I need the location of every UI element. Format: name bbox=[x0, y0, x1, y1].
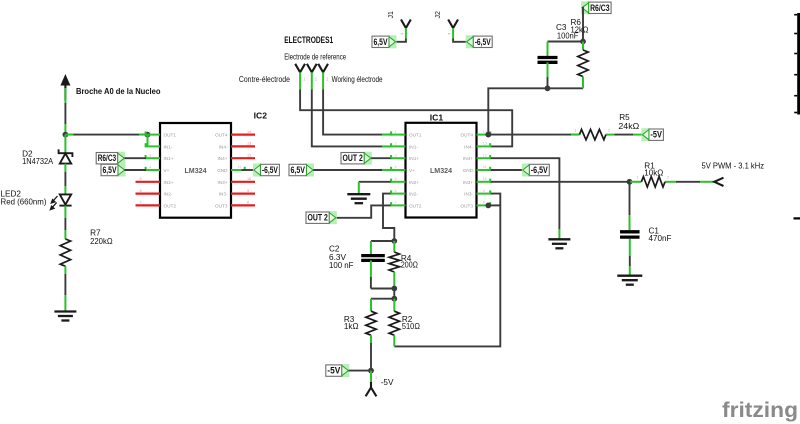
svg-text:Broche A0 de la Nucleo: Broche A0 de la Nucleo bbox=[76, 86, 161, 96]
wire R6/C3 label to IC2 IN1+ bbox=[125, 157, 147, 159]
svg-text:GND: GND bbox=[217, 168, 228, 173]
svg-text:10: 10 bbox=[247, 177, 251, 181]
net label -6,5V at IC1 GND bbox=[522, 164, 550, 177]
op-amp IC1 pin 6 (IN2-) stub bbox=[391, 193, 406, 195]
op-amp IC2 pin 7 (OUT2) stub bbox=[136, 204, 161, 206]
wire IC1 IN4+ to ground bbox=[491, 158, 560, 229]
wire IC1 IN3- down to R2 bottom bbox=[394, 194, 500, 347]
svg-text:IN4+: IN4+ bbox=[463, 156, 473, 161]
pin mark J1 bbox=[401, 33, 404, 35]
net label R6/C3 at IC2 IN1+ bbox=[96, 152, 125, 165]
wire R3 top lead bbox=[370, 299, 372, 312]
svg-text:12: 12 bbox=[483, 153, 487, 157]
net label -6,5V at J2 bbox=[466, 35, 493, 48]
wire R2 top lead bbox=[393, 299, 395, 312]
net label -6,5V at IC2 GND bbox=[253, 164, 280, 177]
resistor R6 12k bbox=[578, 50, 588, 77]
svg-text:OUT 2: OUT 2 bbox=[343, 153, 363, 163]
net label -5V bottom bbox=[326, 364, 350, 377]
wire R6/C3 label to node bbox=[582, 8, 583, 42]
svg-text:V+: V+ bbox=[164, 168, 170, 173]
wire green ends R5 bbox=[571, 134, 580, 136]
svg-text:11: 11 bbox=[483, 165, 487, 169]
svg-text:IN1+: IN1+ bbox=[409, 156, 419, 161]
svg-text:V+: V+ bbox=[409, 168, 415, 173]
svg-text:-5V: -5V bbox=[381, 378, 394, 387]
op-amp IC1 pin 14 (OUT4) stub bbox=[477, 134, 491, 136]
op-amp IC2 pin 3 (IN1+) stub bbox=[145, 157, 160, 159]
op-amp IC1 pin 7 (OUT2) stub bbox=[391, 204, 406, 206]
svg-text:11: 11 bbox=[237, 165, 241, 169]
junction R2/R3 top bbox=[391, 296, 397, 302]
svg-text:-6,5V: -6,5V bbox=[475, 37, 492, 47]
wire J1 lead bbox=[405, 28, 407, 39]
junction C2/R4 top bbox=[391, 238, 397, 244]
svg-text:OUT3: OUT3 bbox=[215, 203, 228, 208]
resistor R3 1k bbox=[366, 311, 376, 335]
wire C1 to ground bbox=[629, 239, 631, 256]
svg-text:IN3-: IN3- bbox=[464, 192, 473, 197]
wire R5 to -5V label bbox=[615, 134, 634, 136]
svg-text:IN3+: IN3+ bbox=[463, 180, 473, 185]
wire working electrode to IC1 OUT1 bbox=[323, 90, 390, 135]
svg-text:Red (660nm): Red (660nm) bbox=[1, 198, 47, 207]
svg-text:14: 14 bbox=[247, 130, 251, 134]
svg-text:IN1-: IN1- bbox=[164, 144, 173, 149]
wire IC2 GND to -6,5V label bbox=[242, 169, 254, 171]
svg-text:10: 10 bbox=[483, 177, 487, 181]
svg-text:OUT2: OUT2 bbox=[409, 203, 422, 208]
svg-text:12kΩ: 12kΩ bbox=[571, 26, 589, 35]
wire green end OUT1 bbox=[382, 134, 391, 136]
wire C3 bottom lead bbox=[547, 62, 549, 77]
svg-text:LM324: LM324 bbox=[430, 167, 452, 175]
svg-text:9: 9 bbox=[247, 189, 249, 193]
svg-text:IN1-: IN1- bbox=[409, 144, 418, 149]
svg-text:6: 6 bbox=[395, 189, 397, 193]
wire LED2 to R7 bbox=[64, 206, 66, 218]
svg-text:6,5V: 6,5V bbox=[103, 165, 118, 175]
svg-text:5: 5 bbox=[140, 177, 142, 181]
op-amp IC2 pin 10 (IN3+) stub bbox=[231, 181, 255, 183]
junction IC1 OUT4 bbox=[485, 132, 491, 138]
svg-text:2: 2 bbox=[667, 176, 669, 180]
svg-text:7: 7 bbox=[140, 201, 142, 205]
junction node A bbox=[63, 132, 69, 138]
op-amp IC2 pin 4 (V+) stub bbox=[145, 169, 160, 171]
op-amp IC2 pin 14 (OUT4) stub bbox=[231, 134, 255, 136]
svg-text:J1: J1 bbox=[388, 11, 395, 19]
svg-text:IN2-: IN2- bbox=[409, 192, 418, 197]
partial component at right edge bbox=[794, 13, 800, 218]
op-amp IC2 pin 2 (IN1-) stub bbox=[145, 145, 160, 147]
wire C2 bottom lead bbox=[370, 260, 372, 277]
svg-text:GND: GND bbox=[463, 168, 474, 173]
wire R4 bottom to R2 top node bbox=[393, 289, 395, 299]
svg-text:OUT1: OUT1 bbox=[409, 133, 422, 138]
svg-text:Contre-électrode: Contre-électrode bbox=[239, 75, 290, 84]
svg-text:13: 13 bbox=[247, 142, 251, 146]
svg-text:1: 1 bbox=[636, 176, 638, 180]
wire reference electrode to IC1 IN1- bbox=[312, 90, 391, 147]
op-amp IC1 pin 4 (V+) stub bbox=[391, 169, 406, 171]
svg-text:510Ω: 510Ω bbox=[402, 322, 420, 331]
wire IC1 OUT3 to feedback bbox=[488, 204, 500, 206]
svg-text:1: 1 bbox=[375, 376, 377, 380]
junction IC1 OUT3 bbox=[485, 203, 491, 209]
svg-text:R6/C3: R6/C3 bbox=[590, 3, 610, 13]
svg-text:8: 8 bbox=[247, 201, 249, 205]
wire node to R3 top bbox=[371, 298, 394, 300]
terminal -5V fork bbox=[366, 382, 377, 396]
svg-text:Electrode de reference: Electrode de reference bbox=[284, 53, 346, 62]
wire R4 bottom lead bbox=[393, 272, 395, 289]
ground GND3 bbox=[548, 239, 570, 248]
wire IC1 GND to -6,5V label bbox=[491, 169, 523, 171]
svg-text:5V PWM - 3.1 kHz: 5V PWM - 3.1 kHz bbox=[702, 162, 765, 171]
svg-text:IN1+: IN1+ bbox=[164, 156, 174, 161]
LED LED2 bbox=[59, 194, 71, 205]
wire IC1 OUT4 up to R6/C3 bottom bbox=[488, 88, 583, 134]
wire IC1 IN2- to C2/R4 node bbox=[383, 194, 394, 241]
wire arrow lead green bbox=[64, 88, 66, 103]
wire R1 to PWM terminal bbox=[676, 181, 700, 183]
wire R6 bottom lead bbox=[582, 77, 584, 89]
net label 6,5V at IC1 V+ bbox=[289, 164, 314, 177]
svg-text:IN2-: IN2- bbox=[164, 192, 173, 197]
op-amp IC2 pin 11 (GND) stub bbox=[231, 169, 245, 171]
svg-text:-5V: -5V bbox=[327, 366, 341, 376]
op-amp IC2 pin 9 (IN3-) stub bbox=[231, 193, 255, 195]
svg-text:J2: J2 bbox=[435, 11, 442, 19]
svg-text:IN2+: IN2+ bbox=[409, 180, 419, 185]
wire R2 bottom lead bbox=[393, 335, 395, 346]
op-amp IC2 LM324 body bbox=[160, 123, 231, 218]
op-amp IC2 pin 8 (OUT3) stub bbox=[231, 204, 255, 206]
resistor R1 10k bbox=[641, 177, 665, 187]
diode D2 zener 1N4732A bbox=[59, 149, 73, 163]
svg-text:24kΩ: 24kΩ bbox=[618, 122, 639, 131]
net label -5V at R5 bbox=[641, 128, 663, 141]
svg-text:OUT4: OUT4 bbox=[215, 133, 228, 138]
ground GND1 bbox=[54, 312, 76, 321]
resistor R4 200 bbox=[389, 252, 399, 272]
svg-text:IN4-: IN4- bbox=[219, 144, 228, 149]
wire counter-electrode to IC1 IN4- bbox=[300, 90, 512, 147]
svg-text:1: 1 bbox=[395, 130, 397, 134]
wire IC1 IN2+ to ground bbox=[359, 181, 391, 183]
wire IC1 IN3+ to R1 node bbox=[491, 181, 630, 183]
svg-text:OUT1: OUT1 bbox=[164, 133, 177, 138]
op-amp IC1 pin 1 (OUT1) stub bbox=[391, 134, 406, 136]
wire IC1 OUT2 to OUT 2 label bbox=[336, 205, 391, 217]
svg-text:IN2+: IN2+ bbox=[164, 180, 174, 185]
capacitor C3 100nF bbox=[538, 58, 558, 63]
wire green end V+ bbox=[382, 169, 391, 171]
svg-text:6: 6 bbox=[140, 189, 142, 193]
svg-text:IN3+: IN3+ bbox=[217, 180, 227, 185]
svg-text:-6,5V: -6,5V bbox=[262, 165, 279, 175]
wire -5V label to node bbox=[349, 370, 371, 372]
wire D2 to LED2 bbox=[64, 164, 66, 172]
pin header ELECTRODES1 reference electrode bbox=[307, 64, 317, 73]
wire 6,5V label to IC2 V+ bbox=[125, 169, 147, 171]
net label OUT 2 at IC1 OUT2 bbox=[306, 211, 337, 224]
pin mark J2 bbox=[448, 33, 451, 35]
op-amp IC2 pin 1 (OUT1) stub bbox=[145, 134, 160, 136]
svg-text:1kΩ: 1kΩ bbox=[344, 322, 359, 331]
svg-text:470nF: 470nF bbox=[649, 234, 672, 243]
svg-text:1N4732A: 1N4732A bbox=[22, 157, 53, 166]
net label 6,5V at IC2 V+ bbox=[101, 164, 126, 177]
svg-text:13: 13 bbox=[483, 142, 487, 146]
pin header ELECTRODES1 counter electrode bbox=[295, 64, 305, 73]
svg-text:12: 12 bbox=[247, 153, 251, 157]
svg-text:200Ω: 200Ω bbox=[401, 261, 418, 270]
op-amp IC2 pin 13 (IN4-) stub bbox=[231, 145, 255, 147]
net label 6,5V at J1 bbox=[372, 35, 397, 48]
wire R7 to ground bbox=[64, 266, 66, 274]
capacitor C2 100nF bbox=[361, 256, 385, 261]
wire C3 top lead bbox=[547, 42, 549, 57]
svg-text:R6/C3: R6/C3 bbox=[98, 153, 117, 163]
pin header J1 bbox=[401, 20, 411, 29]
op-amp IC1 pin 9 (IN3-) stub bbox=[477, 193, 491, 195]
wire arrow to node A bbox=[64, 103, 66, 124]
svg-text:6,5V: 6,5V bbox=[291, 165, 306, 175]
terminal 5V PWM fork bbox=[714, 178, 723, 186]
op-amp IC1 pin 5 (IN2+) stub bbox=[391, 181, 406, 183]
wire IN2+ ground lead bbox=[358, 182, 360, 194]
wire node A green ends bbox=[65, 134, 73, 136]
svg-text:fritzing: fritzing bbox=[722, 398, 798, 422]
resistor R2 510 bbox=[389, 311, 399, 335]
op-amp IC1 pin 2 (IN1-) stub bbox=[391, 145, 406, 147]
svg-text:2: 2 bbox=[395, 142, 397, 146]
op-amp IC2 pin 6 (IN2-) stub bbox=[136, 193, 161, 195]
svg-text:4: 4 bbox=[395, 165, 397, 169]
wire IC2 OUT1 to IN1- bbox=[147, 135, 149, 147]
junction IC2 OUT1 bbox=[145, 132, 151, 138]
svg-text:OUT3: OUT3 bbox=[460, 203, 473, 208]
svg-text:2: 2 bbox=[608, 129, 610, 133]
terminal arrow Broche A0 bbox=[60, 74, 70, 86]
svg-text:220kΩ: 220kΩ bbox=[90, 237, 113, 246]
svg-text:3: 3 bbox=[395, 153, 397, 157]
svg-text:-6,5V: -6,5V bbox=[531, 165, 549, 175]
wire node to C2 top bbox=[371, 240, 394, 242]
svg-text:LM324: LM324 bbox=[184, 167, 206, 175]
wire 6,5V label to IC1 V+ bbox=[313, 169, 390, 171]
wire R1 node to C1 bbox=[629, 182, 631, 215]
wire C2 bottom to R4 bottom bbox=[371, 288, 394, 290]
wire C3 top to R6 top bbox=[548, 41, 584, 43]
op-amp IC2 pin 12 (IN4+) stub bbox=[231, 157, 255, 159]
junction R6/C3 node bbox=[580, 39, 586, 45]
wire node A to D2 bbox=[64, 135, 66, 153]
wire R6 top lead bbox=[582, 42, 584, 51]
net label R6/C3 top bbox=[581, 1, 611, 14]
op-amp IC2 pin 5 (IN2+) stub bbox=[136, 181, 161, 183]
svg-text:4: 4 bbox=[149, 165, 151, 169]
LED2 emission arrows bbox=[50, 196, 57, 210]
net label OUT 2 at IC1 IN1+ bbox=[341, 152, 372, 165]
wire counter electrode lead bbox=[299, 72, 301, 89]
svg-text:IN3-: IN3- bbox=[219, 192, 228, 197]
svg-text:5: 5 bbox=[395, 177, 397, 181]
svg-text:IC2: IC2 bbox=[254, 111, 268, 121]
svg-text:9: 9 bbox=[483, 189, 485, 193]
svg-text:R5: R5 bbox=[619, 113, 630, 122]
svg-text:Working électrode: Working électrode bbox=[332, 75, 383, 84]
op-amp IC1 pin 12 (IN4+) stub bbox=[477, 157, 491, 159]
wire working electrode lead bbox=[322, 72, 324, 89]
wire R3 bottom lead bbox=[370, 335, 372, 343]
resistor R7 220k bbox=[60, 239, 70, 266]
op-amp IC1 pin 8 (OUT3) stub bbox=[477, 204, 491, 206]
junction R4 bottom bbox=[391, 286, 397, 292]
wire -5V node lead bbox=[370, 371, 372, 382]
op-amp IC1 pin 10 (IN3+) stub bbox=[477, 181, 491, 183]
svg-text:6,5V: 6,5V bbox=[374, 37, 389, 47]
junction C3 bottom bbox=[545, 85, 551, 91]
pin header J2 bbox=[448, 20, 458, 29]
svg-text:OUT4: OUT4 bbox=[460, 133, 473, 138]
svg-text:IC1: IC1 bbox=[430, 113, 444, 123]
wire IC1 OUT4 to R5 bbox=[488, 134, 579, 136]
svg-text:10kΩ: 10kΩ bbox=[644, 169, 663, 178]
wire R4 top lead bbox=[393, 241, 395, 252]
svg-text:1: 1 bbox=[574, 129, 576, 133]
pin header ELECTRODES1 working electrode bbox=[318, 64, 328, 73]
svg-text:1: 1 bbox=[149, 130, 151, 134]
op-amp IC1 pin 11 (GND) stub bbox=[477, 169, 491, 171]
svg-text:OUT2: OUT2 bbox=[164, 203, 177, 208]
ground GND2 bbox=[347, 194, 370, 203]
wire IN4+ ground lead green bbox=[558, 229, 560, 239]
resistor R5 24k bbox=[580, 129, 606, 139]
svg-text:3: 3 bbox=[149, 153, 151, 157]
wire reference electrode lead bbox=[311, 72, 313, 89]
svg-text:ELECTRODES1: ELECTRODES1 bbox=[284, 35, 333, 45]
svg-text:IN4+: IN4+ bbox=[217, 156, 227, 161]
wire green end IN1- bbox=[382, 145, 391, 147]
svg-text:2: 2 bbox=[149, 142, 151, 146]
capacitor C1 470nF bbox=[620, 232, 640, 237]
svg-text:8: 8 bbox=[483, 201, 485, 205]
op-amp IC1 pin 13 (IN4-) stub bbox=[477, 145, 491, 147]
svg-text:-5V: -5V bbox=[650, 130, 662, 140]
op-amp IC1 LM324 body bbox=[406, 123, 477, 218]
svg-text:OUT 2: OUT 2 bbox=[308, 213, 328, 223]
wire OUT 2 label to IC1 IN1+ bbox=[371, 157, 390, 159]
wire J1 to 6,5V label bbox=[396, 39, 406, 42]
op-amp IC1 pin 3 (IN1+) stub bbox=[391, 157, 406, 159]
wire J2 to -6,5V label bbox=[453, 39, 466, 42]
junction -5V node bbox=[368, 368, 374, 374]
svg-text:7: 7 bbox=[395, 201, 397, 205]
wire green ends R1 bbox=[630, 181, 641, 183]
junction R1/C1 bbox=[627, 179, 633, 185]
svg-text:100 nF: 100 nF bbox=[329, 261, 354, 270]
wire C2 top lead bbox=[370, 241, 372, 254]
wire node A to IC2 OUT1 bbox=[65, 134, 147, 136]
svg-text:IN4-: IN4- bbox=[464, 144, 473, 149]
ground GND4 bbox=[617, 276, 642, 285]
wire J2 lead bbox=[452, 28, 454, 39]
